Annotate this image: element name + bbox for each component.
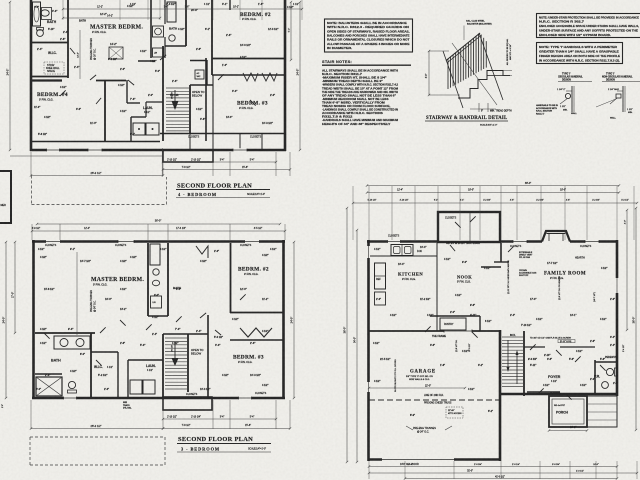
- plan2 laundry washer dryer: [130, 380, 155, 394]
- plan2 left rotated dim: [2, 404, 4, 408]
- plan2 room label BEDRM #3: [233, 355, 264, 365]
- plan2 stair arrow: [172, 342, 179, 366]
- floor plan: first floor (bottom-right): [343, 182, 639, 480]
- plan2 exterior walls: [32, 240, 285, 410]
- plan3 exterior walls: [367, 212, 618, 461]
- plan1 stor dashed box: [44, 62, 64, 74]
- plan2 left dimension lines: [2, 241, 17, 399]
- plan3 scattered dim texts: [373, 242, 618, 429]
- plan3 right dimension lines: [625, 207, 638, 431]
- stair detail: tread depth dim: [478, 103, 480, 112]
- plan3 attic access dashed box: [446, 407, 463, 418]
- plan1 dashed roof outline below: [32, 176, 167, 205]
- stairway and handrail detail drawing: [425, 20, 512, 127]
- plan1 bottom dimension rows: [30, 152, 291, 177]
- plan3 label HEARTH: [575, 257, 585, 260]
- left edge inset rectangle: [0, 171, 11, 223]
- plan1 bath2 tub: [167, 2, 176, 22]
- plan3 bottom dimension rows: [368, 461, 638, 480]
- plan1 scattered dim texts: [37, 3, 295, 125]
- stair detail: treads steps: [458, 71, 510, 99]
- plan3 rotated notes: [395, 260, 625, 392]
- extra dim texts plan3: [374, 246, 615, 417]
- plan3 room label FOYER: [548, 375, 561, 383]
- plan2 label PRE-ENG TRUSSES rotated: [91, 290, 97, 312]
- plan2 scattered dim texts: [40, 254, 270, 377]
- plan2 lin shelf: [151, 296, 162, 308]
- plan1 label BATH2: [169, 27, 177, 31]
- plan2 room label MASTER BEDRM: [91, 277, 144, 287]
- plan2 top dimension rows: [31, 219, 286, 241]
- plan2 stair treads: [165, 338, 187, 389]
- handrail detail: circular profile sketch: [557, 86, 578, 115]
- plan3 label DW: [417, 250, 423, 253]
- plan1 stair treads: [166, 88, 189, 131]
- plan1 exterior walls: [30, 0, 286, 162]
- plan3 room label KITCHEN: [398, 272, 423, 282]
- notes: type I handrail box: [537, 43, 623, 64]
- plan2 label WIC: [94, 365, 113, 369]
- plan3 interior walls: [369, 243, 618, 396]
- plan2 label OPEN TO BELOW: [191, 348, 204, 356]
- plan3 label 16-0 OH DOOR: [400, 463, 419, 466]
- stair detail: left dim: [428, 51, 430, 95]
- plan3 garage door opening: [382, 458, 454, 462]
- plan2 label BATH center rotated: [173, 286, 181, 290]
- plan2 center bath toilet: [153, 269, 159, 275]
- plan3 windows: [388, 240, 600, 244]
- plan3 door swings: [425, 216, 606, 399]
- plan1 labels CLOSETS: [188, 136, 262, 139]
- plan3 nook slider: [444, 329, 472, 333]
- plan3 garage 2nd floor dashed line: [369, 399, 500, 401]
- handrail detail: circular type label: [558, 74, 592, 82]
- plan2 door swings: [44, 294, 246, 365]
- plan1 bath sink: [41, 10, 49, 16]
- plan1 bath2 toilet: [169, 35, 175, 41]
- plan2 closet zigzag bedrm2: [240, 328, 272, 337]
- plan2 label BATH bottom: [51, 359, 61, 363]
- plan3 fireplace texts: [519, 251, 537, 277]
- plan3 left dimension lines: [343, 207, 359, 463]
- plan2 title SECOND FLOOR PLAN: [177, 436, 271, 452]
- plan1 windows: [47, 148, 248, 152]
- plan2 shower with X: [36, 377, 62, 396]
- plan1 bath vanity counter: [42, 8, 52, 20]
- plan2 master bath vanity two sinks: [54, 336, 90, 349]
- plan2 interior walls: [35, 243, 284, 397]
- plan2 labels CLOSETS bottom: [186, 392, 267, 396]
- plan3 right stoop: [587, 396, 617, 427]
- plan1 label STOR: [46, 64, 60, 73]
- plan3 garage dim line: [368, 385, 466, 390]
- plan2 closet zigzag center: [196, 246, 208, 258]
- plan2 see trays note: [123, 402, 132, 410]
- plan3 porch dim: [548, 429, 588, 431]
- plan2 interior dim line: [76, 252, 78, 335]
- plan1 interior walls: [31, 0, 286, 141]
- plan1 label LAUN: [143, 106, 153, 114]
- plan3 label REF: [376, 278, 381, 281]
- stair detail: balusters: [448, 34, 486, 89]
- floor plan: second floor 3-bedroom (bottom-left): [2, 219, 296, 466]
- plan3 closets labels: [388, 217, 592, 396]
- plan1 bath tub: [33, 2, 41, 26]
- plan1 room label MASTER BEDRM: [90, 25, 143, 35]
- plan1 bath2 vanity sink: [153, 26, 164, 37]
- handrail note small: [536, 104, 558, 115]
- plan2 bottom dimension rows: [30, 400, 291, 430]
- notes: STAIR NOTES heading: [322, 60, 411, 65]
- notes: under-stair protection box: [537, 14, 640, 38]
- plan1 title SECOND FLOOR PLAN: [176, 183, 270, 198]
- plan2 room label BEDRM #2: [238, 267, 269, 277]
- plan3 pantry box: [440, 318, 466, 330]
- plan3 room label GARAGE: [406, 370, 436, 382]
- plan3 porch: [549, 396, 587, 427]
- plan1 room label BEDRM #3: [237, 101, 268, 111]
- plan1 room label BEDRM #2: [240, 12, 271, 21]
- plan1 bath2 lin shelf: [153, 48, 164, 57]
- plan2 label LAUN: [146, 364, 156, 372]
- plan2 right dimension lines: [290, 241, 296, 399]
- plan1 attic access box: [109, 47, 123, 59]
- handrail detail: non-circular type label: [602, 74, 640, 82]
- plan1 laundry washer dryer: [133, 123, 159, 135]
- plan1 stair DN arrow: [172, 90, 179, 110]
- plan1 top dimension lines: [62, 0, 303, 20]
- plan1 right dimension line: [289, 1, 302, 151]
- plan1 door swings: [60, 48, 256, 106]
- plan2 labels CLOSETS top: [45, 244, 252, 247]
- plan2 toilet bottom: [68, 381, 77, 393]
- plan1 AC VAC box: [195, 70, 204, 79]
- plan1 room label BEDRM #4: [37, 92, 68, 102]
- plan1 closet dividers bottom strip: [190, 134, 262, 150]
- plan1 master interior dim line: [78, 30, 81, 79]
- stair detail: stringer diagonals: [443, 51, 463, 108]
- plan1 label PRE-ENG TRUSSES rotated: [91, 38, 97, 60]
- plan3 PR sink: [602, 382, 609, 389]
- plan1 closet rod zigzag: [243, 73, 258, 81]
- plan3 room label PR: [594, 375, 600, 379]
- floor plan: second floor 4-bedroom (top-left, cut at top): [0, 0, 303, 223]
- plan3 kitchen counters and sink: [370, 213, 470, 305]
- plan1 left dimension line: [6, 1, 12, 151]
- plan1 label OPEN TO BELOW: [192, 90, 205, 98]
- plan1 label BATH: [47, 20, 57, 24]
- plan2 center bath tub: [150, 244, 160, 265]
- plan3 top dimension rows: [352, 182, 638, 240]
- extra dim texts plan1: [34, 6, 278, 136]
- plan1 closet rod zigzag 2: [262, 73, 277, 81]
- stair detail: handrail diagonal: [446, 33, 480, 61]
- notes: stair notes text block: [322, 70, 399, 126]
- handrail detail: non-circular profile sketch: [596, 86, 633, 120]
- plan3 garage notes: [406, 395, 452, 434]
- plan1 lower extension line: [10, 148, 163, 176]
- extra dim texts plan2: [36, 248, 276, 391]
- plan2 windows top: [46, 240, 260, 244]
- plan1 label WIC: [48, 51, 57, 55]
- plan3 room label FAMILY ROOM: [544, 272, 586, 281]
- plan3 stairs: [502, 337, 523, 387]
- plan3 side openings: [367, 246, 619, 392]
- plan2 dashed roof outline: [30, 437, 165, 465]
- plan1 bath toilet: [37, 28, 44, 37]
- plan2 windows bottom: [64, 396, 252, 400]
- plan3 room label NOOK: [457, 275, 472, 284]
- plan3 PR toilet: [606, 368, 617, 376]
- notes: balusters note box: [325, 19, 413, 52]
- plan2 center bath sink: [152, 280, 159, 286]
- plan3 stair landing note: [530, 338, 575, 344]
- plan3 room label PORCH: [554, 405, 569, 415]
